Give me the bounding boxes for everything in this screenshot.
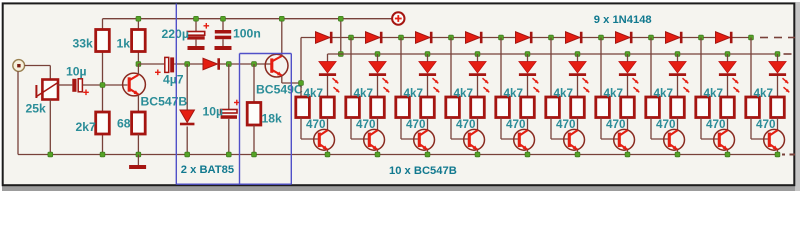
transistor Q4 BC547B bbox=[364, 129, 385, 150]
node 2k7 ground bbox=[100, 152, 105, 157]
diode D3 1N4148 bbox=[316, 32, 332, 44]
wire BAT85-2 column bbox=[186, 64, 188, 110]
wire top rail bbox=[103, 18, 392, 20]
svg-text:18k: 18k bbox=[262, 112, 283, 126]
LED D9 bbox=[719, 62, 739, 93]
wire LED1 cathode bbox=[327, 76, 329, 97]
wire collector node to C2 bbox=[138, 63, 164, 65]
label 33k bbox=[73, 37, 94, 51]
node LED10 anode bbox=[775, 52, 780, 57]
label 18k bbox=[262, 112, 283, 126]
LED D5 bbox=[519, 62, 539, 93]
label 470 stage 5 bbox=[506, 118, 526, 131]
wire tap 4 bbox=[450, 38, 452, 98]
label 470 stage 9 bbox=[706, 118, 726, 131]
transistor Q10 BC547B bbox=[664, 129, 685, 150]
wire D1 to base bbox=[220, 63, 271, 65]
wire pot bottom bbox=[49, 100, 51, 155]
node emitter 3 bbox=[425, 152, 430, 157]
resistor R8b 470 bbox=[671, 97, 685, 118]
node LED8 anode bbox=[675, 52, 680, 57]
capacitor 220µ supply bbox=[187, 19, 204, 46]
wire LED8 cathode bbox=[677, 76, 679, 97]
diode D10 1N4148 bbox=[666, 32, 682, 44]
label 4k7 stage 1 bbox=[304, 87, 324, 100]
wire LED rail dashed continuation bbox=[784, 53, 792, 55]
wire LED9 anode bbox=[727, 54, 729, 62]
node Q1 collector bbox=[136, 62, 141, 67]
ground symbol bbox=[129, 165, 146, 169]
wire collector stage 6 bbox=[577, 118, 579, 131]
LED D8 bbox=[669, 62, 689, 93]
wire tap 5 bbox=[500, 38, 502, 98]
diode D6 1N4148 bbox=[466, 32, 482, 44]
diode D4 1N4148 bbox=[366, 32, 382, 44]
resistor R7b 470 bbox=[621, 97, 635, 118]
wire base link stage 10 bbox=[751, 118, 768, 140]
diode D1 BAT85 bbox=[203, 58, 219, 70]
wire base link stage 5 bbox=[501, 118, 518, 140]
wire collector stage 3 bbox=[427, 118, 429, 131]
label 2k7 bbox=[76, 120, 97, 134]
node 220µ rail bbox=[194, 16, 199, 21]
label 25k bbox=[26, 102, 47, 116]
transistor Q11 BC547B bbox=[714, 129, 735, 150]
svg-text:9 x 1N4148: 9 x 1N4148 bbox=[594, 14, 652, 26]
node +V rowB bbox=[338, 52, 343, 57]
plus polarity 220µ bbox=[204, 23, 210, 29]
wire ground stub bbox=[137, 155, 139, 166]
wire bottom rail bbox=[18, 154, 778, 156]
diode D7 1N4148 bbox=[516, 32, 532, 44]
node chain tap 10 bbox=[749, 35, 754, 40]
svg-text:33k: 33k bbox=[73, 37, 94, 51]
wire LED5 anode bbox=[527, 54, 529, 62]
label BC549C bbox=[256, 83, 303, 97]
wire LED2 anode bbox=[377, 54, 379, 62]
label 4k7 stage 4 bbox=[454, 87, 474, 100]
wire collector stage 9 bbox=[727, 118, 729, 131]
LED D7 bbox=[619, 62, 639, 93]
node LED6 anode bbox=[575, 52, 580, 57]
svg-text:68: 68 bbox=[117, 117, 131, 131]
wire collector stage 7 bbox=[627, 118, 629, 131]
transistor Q5 BC547B bbox=[414, 129, 435, 150]
wire collector stage 2 bbox=[377, 118, 379, 131]
resistor R7a 4k7 bbox=[596, 97, 610, 118]
node emitter 7 bbox=[625, 152, 630, 157]
node base divider bbox=[100, 83, 105, 88]
label 1k bbox=[117, 37, 131, 51]
wire LED6 anode bbox=[577, 54, 579, 62]
label 220µ bbox=[162, 27, 189, 41]
diode D5 1N4148 bbox=[416, 32, 432, 44]
label 4k7 stage 8 bbox=[654, 87, 674, 100]
wire +V drop column bbox=[340, 19, 342, 54]
resistor R2a 4k7 bbox=[346, 97, 360, 118]
resistor 1k bbox=[132, 30, 146, 52]
wire LED6 cathode bbox=[577, 76, 579, 97]
node 18k ground bbox=[252, 152, 257, 157]
node emitter 1 bbox=[325, 152, 330, 157]
wire tap 10 bbox=[750, 38, 752, 98]
wire LED1 anode corner bbox=[327, 54, 329, 62]
transistor Q3 BC547B bbox=[314, 129, 335, 150]
label 4k7 stage 10 bbox=[754, 87, 774, 100]
wire LED3 cathode bbox=[427, 76, 429, 97]
label 4µ7 bbox=[163, 73, 184, 87]
resistor R9b 470 bbox=[721, 97, 735, 118]
wire 1k column top bbox=[137, 19, 139, 64]
wire emitter stage 5 bbox=[527, 150, 529, 155]
wire base link stage 2 bbox=[351, 118, 368, 140]
transistor Q2 BC549C bbox=[265, 19, 301, 83]
resistor R3a 4k7 bbox=[396, 97, 410, 118]
transistor Q7 BC547B bbox=[514, 129, 535, 150]
label 470 stage 2 bbox=[356, 118, 376, 131]
node chain tap 7 bbox=[599, 35, 604, 40]
resistor R4a 4k7 bbox=[446, 97, 460, 118]
resistor R2b 470 bbox=[371, 97, 385, 118]
node emitter 5 bbox=[525, 152, 530, 157]
resistor R3b 470 bbox=[421, 97, 435, 118]
resistor R1a 4k7 bbox=[296, 97, 310, 118]
node chain tap 8 bbox=[649, 35, 654, 40]
node LED4 anode bbox=[475, 52, 480, 57]
resistor 68 bbox=[132, 112, 146, 134]
resistor R10b 470 bbox=[771, 97, 785, 118]
label 4k7 stage 2 bbox=[354, 87, 374, 100]
node D2 ground bbox=[185, 152, 190, 157]
node LED9 anode bbox=[725, 52, 730, 57]
resistor R6b 470 bbox=[571, 97, 585, 118]
node chain tap 4 bbox=[449, 35, 454, 40]
svg-text:BC549C: BC549C bbox=[256, 83, 303, 97]
wire LED4 cathode bbox=[477, 76, 479, 97]
wire emitter stage 9 bbox=[727, 150, 729, 155]
wire emitter stage 7 bbox=[627, 150, 629, 155]
label 4k7 stage 6 bbox=[554, 87, 574, 100]
wire LED4 anode bbox=[477, 54, 479, 62]
plus polarity 10µ middle bbox=[234, 100, 240, 106]
node signal BAT85 anode bbox=[185, 62, 190, 67]
wire D2 to rail bbox=[186, 127, 188, 155]
node stage1 drive junction bbox=[299, 81, 304, 86]
wire LED2 cathode bbox=[377, 76, 379, 97]
potentiometer 25k bbox=[36, 80, 58, 100]
label 470 stage 6 bbox=[556, 118, 576, 131]
node LED7 anode bbox=[625, 52, 630, 57]
svg-text:25k: 25k bbox=[26, 102, 47, 116]
wire C2 to D1 node bbox=[174, 63, 203, 65]
label 100n bbox=[233, 27, 261, 41]
LED D4 bbox=[469, 62, 489, 93]
node 18k tap bbox=[252, 62, 257, 67]
node emitter 8 bbox=[675, 152, 680, 157]
wire tap 2 bbox=[350, 38, 352, 98]
node chain tap 3 bbox=[399, 35, 404, 40]
label 4k7 stage 5 bbox=[504, 87, 524, 100]
wire C1 to base node bbox=[82, 84, 127, 86]
resistor 18k bbox=[247, 64, 261, 155]
node 10µ tap bbox=[226, 62, 231, 67]
node 10µ ground bbox=[226, 152, 231, 157]
label 10 x BC547B bbox=[389, 165, 457, 177]
svg-text:BC547B: BC547B bbox=[141, 95, 188, 109]
node emitter ground bbox=[136, 152, 141, 157]
capacitor 10µ middle bbox=[221, 64, 237, 155]
wire emitter stage 3 bbox=[427, 150, 429, 155]
wire collector stage 8 bbox=[677, 118, 679, 131]
diode D8 1N4148 bbox=[566, 32, 582, 44]
diode D11 1N4148 bbox=[716, 32, 732, 44]
transistor Q12 BC547B bbox=[764, 129, 785, 150]
wire LED3 anode bbox=[427, 54, 429, 62]
node pot ground bbox=[48, 152, 53, 157]
label 470 stage 7 bbox=[606, 118, 626, 131]
resistor R9a 4k7 bbox=[696, 97, 710, 118]
transistor Q6 BC547B bbox=[464, 129, 485, 150]
resistor 2k7 bbox=[96, 112, 110, 134]
diode D2 BAT85 vertical bbox=[180, 110, 195, 124]
label 470 stage 1 bbox=[306, 118, 326, 131]
node chain tap 9 bbox=[699, 35, 704, 40]
node chain tap 2 bbox=[349, 35, 354, 40]
wire 68 to rail bbox=[137, 134, 139, 155]
wire collector stage 10 bbox=[777, 118, 779, 131]
capacitor 10µ input coupling bbox=[72, 79, 82, 92]
plus polarity C1 bbox=[83, 90, 89, 96]
wire tap 3 bbox=[400, 38, 402, 98]
label 470 stage 3 bbox=[406, 118, 426, 131]
wire diode chain rail bbox=[301, 37, 751, 39]
node 100n rail bbox=[221, 16, 226, 21]
wire LED5 cathode bbox=[527, 76, 529, 97]
page background bbox=[0, 0, 800, 191]
label 9 x 1N4148 bbox=[594, 14, 652, 26]
wire tap 6 bbox=[550, 38, 552, 98]
wire tap 8 bbox=[650, 38, 652, 98]
wire base link stage 8 bbox=[651, 118, 668, 140]
svg-text:10µ: 10µ bbox=[203, 105, 224, 119]
wire base link stage 3 bbox=[401, 118, 418, 140]
wire LED7 anode bbox=[627, 54, 629, 62]
svg-text:2 x BAT85: 2 x BAT85 bbox=[181, 164, 234, 176]
wire collector stage 5 bbox=[527, 118, 529, 131]
wire bottom rail dashed continuation bbox=[782, 154, 795, 156]
wire emitter stage 4 bbox=[477, 150, 479, 155]
node LED3 anode bbox=[425, 52, 430, 57]
wire base link stage 1 bbox=[301, 118, 318, 140]
wire diode rail dashed continuation bbox=[760, 37, 795, 39]
svg-text:220µ: 220µ bbox=[162, 27, 189, 41]
connector J1 audio input bbox=[13, 60, 25, 72]
wire base link stage 6 bbox=[551, 118, 568, 140]
LED D2 bbox=[369, 62, 389, 93]
resistor R4b 470 bbox=[471, 97, 485, 118]
svg-text:2k7: 2k7 bbox=[76, 120, 97, 134]
wire jack to pot bbox=[25, 66, 51, 80]
wire base link stage 7 bbox=[601, 118, 618, 140]
wire emitter stage 2 bbox=[377, 150, 379, 155]
label 10µ bbox=[66, 65, 87, 79]
blue boundary line left bbox=[175, 4, 177, 185]
transistor Q8 BC547B bbox=[564, 129, 585, 150]
node 1k top rail bbox=[136, 16, 141, 21]
resistor R1b 470 bbox=[321, 97, 335, 118]
capacitor 100n supply bbox=[215, 19, 231, 46]
resistor R6a 4k7 bbox=[546, 97, 560, 118]
LED D1 bbox=[319, 62, 339, 93]
label 4k7 stage 7 bbox=[604, 87, 624, 100]
svg-text:10µ: 10µ bbox=[66, 65, 87, 79]
transistor Q1 BC547B bbox=[123, 64, 146, 112]
svg-text:10 x BC547B: 10 x BC547B bbox=[389, 165, 457, 177]
node emitter 4 bbox=[475, 152, 480, 157]
wire LED7 cathode bbox=[627, 76, 629, 97]
node emitter 10 bbox=[775, 152, 780, 157]
node chain tap 5 bbox=[499, 35, 504, 40]
svg-text:1k: 1k bbox=[117, 37, 131, 51]
wire tap 9 bbox=[700, 38, 702, 98]
node LED2 anode bbox=[375, 52, 380, 57]
terminal + supply bbox=[392, 12, 404, 24]
node emitter 9 bbox=[725, 152, 730, 157]
label 470 stage 10 bbox=[756, 118, 776, 131]
LED D3 bbox=[419, 62, 439, 93]
resistor 33k bbox=[96, 30, 110, 52]
ground 220µ bbox=[188, 46, 205, 50]
wire LED anode rail bbox=[328, 53, 780, 55]
LED D10 bbox=[769, 62, 789, 93]
plus polarity C2 bbox=[155, 70, 161, 76]
wire emitter stage 8 bbox=[677, 150, 679, 155]
wire base link stage 4 bbox=[451, 118, 468, 140]
wire jack ground bbox=[17, 71, 19, 154]
node emitter 2 bbox=[375, 152, 380, 157]
wire LED8 anode bbox=[677, 54, 679, 62]
svg-text:100n: 100n bbox=[233, 27, 261, 41]
capacitor 4µ7 coupling bbox=[165, 57, 174, 72]
label 470 stage 8 bbox=[656, 118, 676, 131]
wire pot wiper to C1 bbox=[57, 84, 72, 86]
resistor R10a 4k7 bbox=[746, 97, 760, 118]
wire LED10 cathode bbox=[777, 76, 779, 97]
wire LED10 anode bbox=[777, 54, 779, 62]
ground 100n bbox=[215, 46, 232, 50]
resistor R5a 4k7 bbox=[496, 97, 510, 118]
resistor R8a 4k7 bbox=[646, 97, 660, 118]
wire LED9 cathode bbox=[727, 76, 729, 97]
label 4k7 stage 9 bbox=[704, 87, 724, 100]
label 2 x BAT85 bbox=[181, 164, 234, 176]
wire emitter stage 10 bbox=[777, 150, 779, 155]
transistor Q9 BC547B bbox=[614, 129, 635, 150]
wire tap 7 bbox=[600, 38, 602, 98]
node emitter 6 bbox=[575, 152, 580, 157]
LED D6 bbox=[569, 62, 589, 93]
node Q2 collector rail bbox=[279, 16, 284, 21]
wire collector stage 1 bbox=[327, 118, 329, 131]
label 10µ middle bbox=[203, 105, 224, 119]
wire emitter stage 1 bbox=[327, 150, 329, 155]
wire 33k column bbox=[102, 19, 104, 155]
svg-text:4µ7: 4µ7 bbox=[163, 73, 184, 87]
node chain tap 6 bbox=[549, 35, 554, 40]
diode D9 1N4148 bbox=[616, 32, 632, 44]
label 4k7 stage 3 bbox=[404, 87, 424, 100]
label 68 bbox=[117, 117, 131, 131]
wire emitter stage 6 bbox=[577, 150, 579, 155]
resistor R5b 470 bbox=[521, 97, 535, 118]
wire collector stage 4 bbox=[477, 118, 479, 131]
wire base link stage 9 bbox=[701, 118, 718, 140]
label BC547B bbox=[141, 95, 188, 109]
label 470 stage 4 bbox=[456, 118, 476, 131]
node +V top bbox=[338, 16, 343, 21]
wire stage1 tap from chain start bbox=[300, 38, 302, 98]
blue boundary box middle bbox=[176, 54, 291, 185]
node LED5 anode bbox=[525, 52, 530, 57]
